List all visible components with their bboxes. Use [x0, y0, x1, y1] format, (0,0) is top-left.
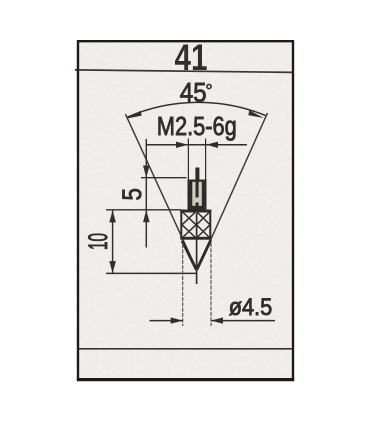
- paper grain: [79, 43, 292, 378]
- degree mark: [207, 84, 211, 88]
- diameter dim line right part (leader): [211, 320, 275, 322]
- arc arrowhead right: [248, 110, 263, 118]
- right 45-degree construction line: [199, 113, 268, 267]
- dim 5 vertical line: [145, 139, 147, 248]
- dim 5 arrow down (above): [143, 166, 150, 178]
- header separator line: [75, 70, 294, 73]
- dim 5 arrow up (below): [143, 210, 150, 222]
- dimension arc for 45 degrees: [127, 102, 266, 117]
- diameter arrow right: [211, 317, 223, 323]
- diameter extension line left: [182, 244, 184, 326]
- bottom band separator line: [77, 348, 293, 350]
- threaded stud body: [188, 180, 207, 211]
- stud center line gap: [195, 198, 199, 203]
- tip extension line bottom: [106, 272, 196, 274]
- thread extension line left: [187, 139, 189, 181]
- cone left side: [182, 241, 197, 271]
- knurl hatch cross pattern: [182, 212, 210, 239]
- stud white slot left: [192, 182, 195, 206]
- stud white slot right: [199, 182, 202, 206]
- thread dim arrow left: [176, 142, 188, 148]
- dim 10 arrow up: [109, 210, 116, 222]
- border frame bottom edge (thicker): [77, 378, 294, 381]
- thread dim arrow right: [206, 142, 218, 148]
- knurl-top extension line (shared by 5 and 10): [106, 209, 181, 211]
- arc arrowhead left: [126, 111, 142, 119]
- dim 10 vertical line: [112, 210, 114, 273]
- diameter arrow left: [171, 317, 183, 323]
- knurled body: [181, 211, 210, 239]
- dim 10 arrow down: [109, 261, 116, 273]
- dim 5 extension line top: [141, 177, 187, 179]
- thread extension line right: [205, 139, 207, 181]
- left 45-degree construction line: [125, 114, 195, 267]
- drawing frame interior tint: [78, 42, 293, 379]
- knurl bottom edge: [180, 237, 211, 240]
- diameter extension line right: [210, 243, 212, 326]
- center axis line: [196, 213, 198, 284]
- knurl top edge: [180, 210, 211, 213]
- cone right side: [197, 240, 211, 270]
- thread dimension line: [146, 144, 247, 146]
- border frame: [78, 41, 293, 379]
- diameter dim line left part: [150, 320, 183, 322]
- stud tip bar: [195, 168, 199, 183]
